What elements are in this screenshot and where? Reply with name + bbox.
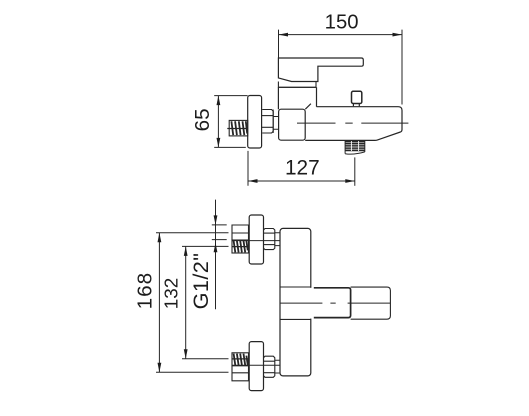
dim 150 left extension line	[278, 30, 280, 58]
dim 132 text	[162, 278, 183, 310]
diverter knob	[352, 91, 362, 103]
spout body	[305, 107, 402, 141]
dim 65 text	[191, 108, 214, 131]
plan spout root edges	[280, 287, 311, 319]
bottom inlet wall thread (hatched)	[232, 353, 249, 366]
plan body	[280, 228, 311, 376]
shower outlet threads	[345, 141, 365, 154]
bottom inlet escutcheon	[249, 342, 263, 391]
wall supply thread pipe (side view)	[227, 120, 247, 135]
plan spout	[351, 287, 391, 319]
svg-text:G1/2": G1/2"	[188, 253, 213, 310]
svg-text:65: 65	[191, 108, 214, 131]
plan center line	[280, 302, 390, 304]
cartridge ring	[278, 82, 316, 88]
dim G1/2 text	[188, 253, 213, 310]
dim 127 text	[285, 157, 320, 180]
plan lever	[314, 288, 351, 318]
bottom inlet nut	[264, 356, 275, 377]
diverter stem	[353, 104, 359, 107]
top inlet axis line	[232, 240, 280, 242]
bottom inlet cylinder	[275, 360, 280, 373]
nut-to-body cylinder (side view)	[273, 110, 278, 134]
bottom inlet plain thread	[232, 366, 249, 381]
dim G1/2 leader line	[214, 200, 218, 310]
body center line	[297, 122, 408, 124]
dim 168 extension lines	[156, 233, 229, 373]
dim 150 text	[325, 11, 359, 33]
dim 168 text	[134, 272, 157, 310]
svg-text:168: 168	[134, 272, 157, 310]
svg-text:132: 132	[162, 278, 183, 310]
valve body	[279, 109, 306, 140]
top inlet nut	[264, 229, 275, 250]
cartridge neck	[278, 87, 316, 109]
svg-text:127: 127	[285, 157, 320, 180]
wall nut (side view)	[262, 110, 274, 134]
dim 127 line	[248, 179, 355, 183]
dim 150 right extension line	[401, 30, 403, 105]
dim 168 line	[158, 233, 162, 373]
dim 132 line	[184, 246, 188, 358]
wall escutcheon (side view)	[248, 96, 262, 149]
body chamfer line	[305, 104, 311, 110]
dim 132 extension lines	[182, 246, 229, 358]
top inlet wall thread (hatched)	[232, 240, 249, 253]
dim G1/2 ticks	[212, 225, 227, 240]
outlet center line	[354, 157, 356, 185]
plan body edge gap mask	[309, 288, 313, 319]
wall face line below escutcheon	[247, 151, 249, 186]
top inlet plain thread	[232, 225, 249, 240]
top inlet cylinder	[275, 233, 280, 246]
top inlet escutcheon	[249, 215, 263, 264]
handle lever	[278, 58, 363, 82]
dim 65 extension lines	[214, 96, 247, 148]
bottom inlet axis line	[232, 364, 280, 366]
svg-text:150: 150	[325, 11, 359, 33]
dim 65 line	[217, 96, 221, 148]
dim 150 line	[279, 33, 403, 37]
